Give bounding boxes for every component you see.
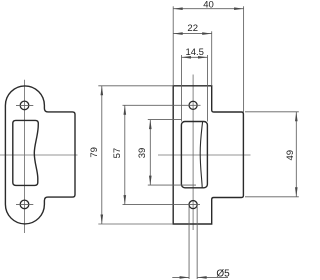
dimension 39 line xyxy=(149,120,151,186)
svg-text:49: 49 xyxy=(285,150,296,161)
left view top hole crosshair xyxy=(16,104,33,106)
dimension 22 extension right xyxy=(211,31,213,86)
dimension 22 line xyxy=(173,33,212,35)
front view horizontal centerline xyxy=(158,154,251,156)
dimension 79 extension bottom xyxy=(98,223,173,225)
dimension 14.5 extension right xyxy=(207,55,209,122)
svg-text:14.5: 14.5 xyxy=(185,47,204,58)
left view top hole xyxy=(20,101,29,110)
front view bottom hole xyxy=(189,201,197,209)
dimension 40 line xyxy=(173,8,243,10)
front view latch opening xyxy=(181,122,207,188)
svg-text:22: 22 xyxy=(187,23,198,34)
front view top hole xyxy=(189,101,197,109)
dimension diameter 5 extension right xyxy=(196,207,198,280)
dimension 39 extension top xyxy=(148,119,182,121)
dimension diameter 5 line left xyxy=(172,276,189,278)
front view top hole centerline xyxy=(123,104,201,106)
dimension 49 extension top xyxy=(245,111,299,113)
front view bottom hole centerline xyxy=(123,204,201,206)
left view vertical centerline xyxy=(24,80,26,233)
svg-text:57: 57 xyxy=(112,148,123,159)
front view lip curve inside opening xyxy=(200,122,202,188)
left view bottom hole crosshair xyxy=(16,203,33,205)
dimension 79 line xyxy=(101,86,103,224)
dimension 40 extension left xyxy=(172,6,174,86)
svg-text:79: 79 xyxy=(89,147,100,158)
dimension 49 extension bottom xyxy=(245,196,299,198)
svg-text:40: 40 xyxy=(203,0,214,10)
left view latch opening xyxy=(13,120,39,185)
left view outline xyxy=(5,86,75,224)
dimension 40 extension right xyxy=(243,6,245,112)
dimension diameter 5 line right xyxy=(197,276,228,278)
svg-text:Ø5: Ø5 xyxy=(216,268,230,279)
dimension 49 line xyxy=(295,112,297,197)
dimension 57 line xyxy=(124,105,126,204)
dimension 14.5 extension left xyxy=(181,55,183,122)
left view bottom hole xyxy=(20,200,29,209)
front view outline xyxy=(173,86,243,224)
dimension diameter 5 extension left xyxy=(188,207,190,280)
dimension 79 extension top xyxy=(98,85,173,87)
front view vertical centerline xyxy=(192,75,194,231)
dimension 14.5 line xyxy=(182,56,208,58)
svg-text:39: 39 xyxy=(137,148,148,159)
left view horizontal centerline xyxy=(0,154,78,156)
dimension 39 extension bottom xyxy=(148,184,196,186)
